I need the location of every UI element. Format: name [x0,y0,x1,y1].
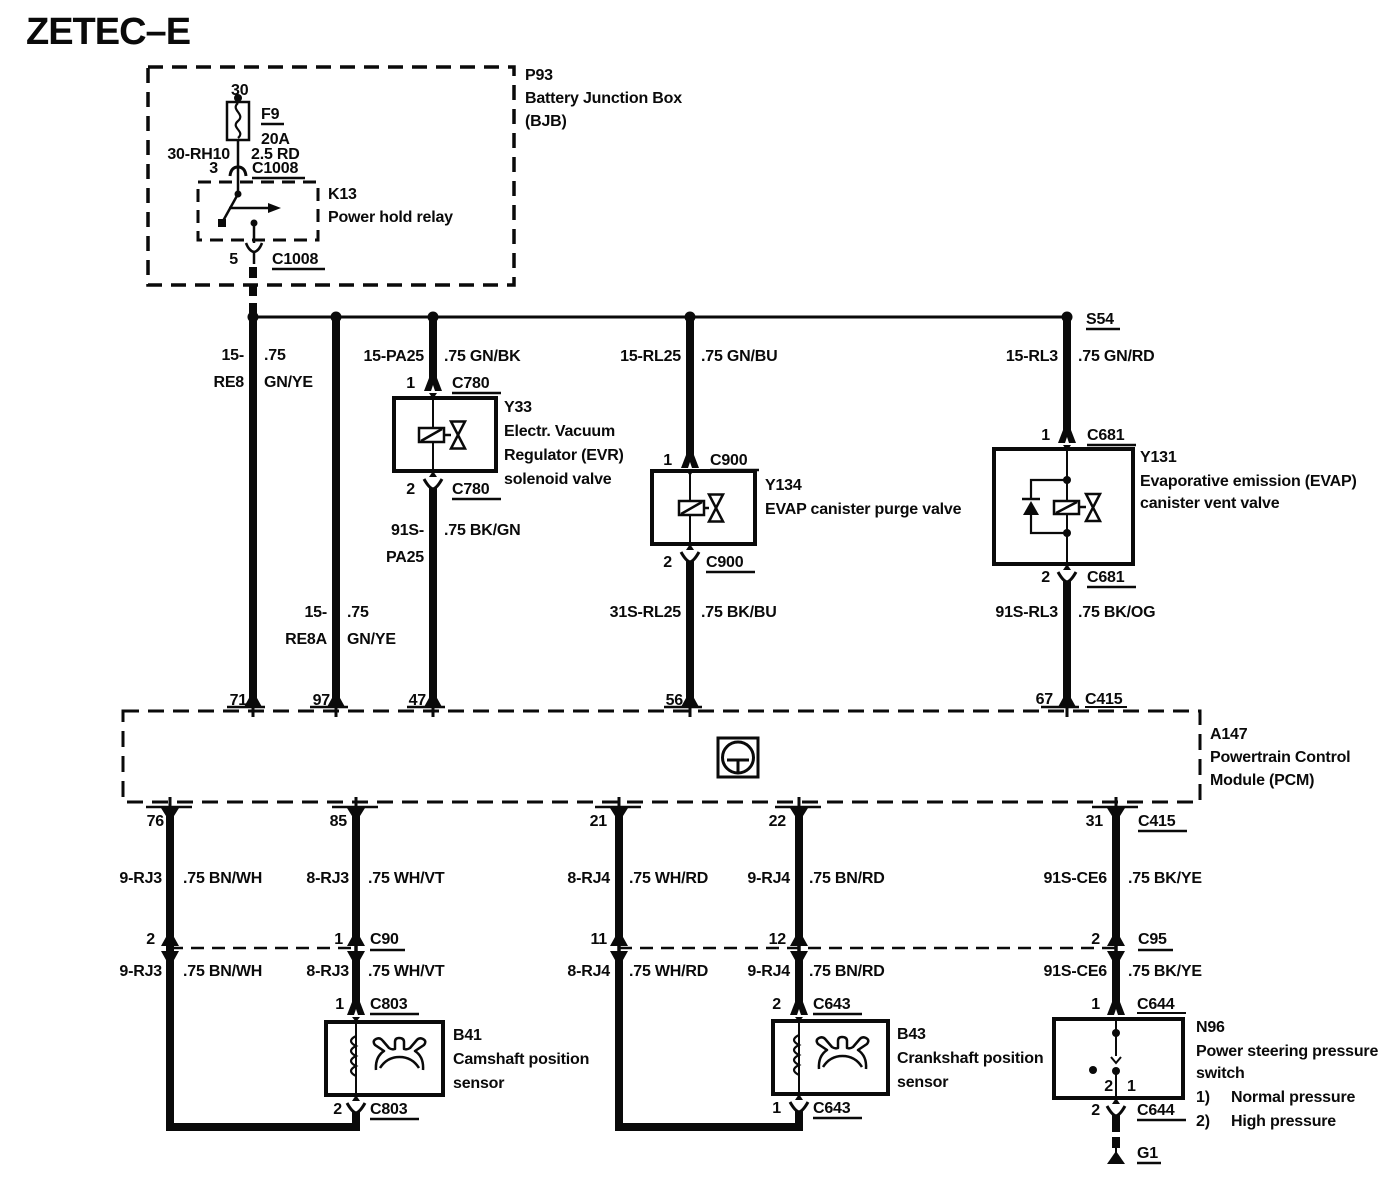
svg-text:C780: C780 [452,375,490,392]
svg-text:2: 2 [406,481,415,498]
node S54 [1086,311,1120,329]
svg-text:N96: N96 [1196,1019,1225,1036]
svg-text:RE8A: RE8A [285,631,328,648]
connector flare W7 at C90 [347,937,365,960]
svg-text:C643: C643 [813,1100,851,1117]
label Y134 EVAP canister purge valve [765,477,962,518]
svg-text:22: 22 [769,813,787,830]
wire fuse to relay [237,140,240,194]
svg-text:9-RJ4: 9-RJ4 [747,870,790,887]
wire 91S-PA25 (W3 lower) [429,488,437,702]
PCM pin 97 [310,692,348,717]
wire thick dashed below relay [249,267,257,314]
svg-text:C681: C681 [1087,569,1125,586]
svg-text:47: 47 [409,692,427,709]
svg-text:1: 1 [335,996,344,1013]
connector C780 pin 1 [406,375,501,399]
wire 31S-RL25 (W4 lower) [686,561,694,702]
svg-text:97: 97 [313,692,331,709]
bus wire horizontal [253,316,1067,319]
wire label 91S-PA25 .75 BK/GN [386,522,521,566]
svg-text:PA25: PA25 [386,549,424,566]
svg-text:1: 1 [406,375,415,392]
svg-text:C900: C900 [710,452,748,469]
relay switch [218,191,281,244]
svg-text:8-RJ3: 8-RJ3 [306,870,349,887]
vent valve Y131 box [994,449,1133,564]
svg-text:.75 WH/RD: .75 WH/RD [629,963,708,980]
svg-text:canister vent valve: canister vent valve [1140,495,1280,512]
svg-text:2: 2 [1041,569,1050,586]
svg-text:C780: C780 [452,481,490,498]
svg-text:.75 WH/VT: .75 WH/VT [368,963,445,980]
wire label 91S-RL3 .75 BK/OG [995,604,1155,621]
svg-text:2: 2 [1091,1102,1100,1119]
B43 coil [794,1035,799,1075]
wire label 15-RE8A .75 GN/YE [285,604,396,648]
svg-text:F9: F9 [261,106,280,123]
wire label 91S-CE6 .75 BK/YE (row 2) [1043,963,1202,980]
svg-text:15-: 15- [304,604,327,621]
svg-text:EVAP canister purge valve: EVAP canister purge valve [765,501,962,518]
svg-text:67: 67 [1036,691,1054,708]
wire 8-RJ4 (W8 upper) [615,810,623,944]
svg-text:1: 1 [1091,996,1100,1013]
wire 15-RL3 (W5 upper) [1063,317,1071,431]
wire 15-PA25 (W3 upper) [429,317,437,379]
svg-text:15-RL3: 15-RL3 [1006,348,1058,365]
svg-text:Y33: Y33 [504,399,532,416]
wire 9-RJ3 lower label (row 2) [119,963,262,980]
svg-text:.75 GN/RD: .75 GN/RD [1078,348,1154,365]
Y33 solenoid symbol [419,428,451,442]
connector flare W9 at C95 [790,937,808,960]
wire label 8-RJ3 .75 WH/VT (row 1) [306,870,444,887]
label A147 Powertrain Control Module (PCM) [1210,726,1350,789]
svg-text:C803: C803 [370,996,408,1013]
PCM pin 31 with C415 [1086,797,1187,831]
connector C900 pin 1 [663,452,759,476]
svg-text:91S-CE6: 91S-CE6 [1043,963,1107,980]
svg-text:8-RJ4: 8-RJ4 [567,870,610,887]
svg-text:.75 BK/YE: .75 BK/YE [1128,870,1202,887]
svg-text:Electr. Vacuum: Electr. Vacuum [504,423,615,440]
svg-text:Battery Junction Box: Battery Junction Box [525,90,682,107]
wire 91S-RL3 (W5 lower) [1063,581,1071,702]
wire label 15-RE8 .75 GN/YE [213,347,313,391]
svg-text:G1: G1 [1137,1145,1158,1162]
svg-text:S54: S54 [1086,311,1114,328]
PCM box A147 (dashed) [123,711,1200,802]
svg-text:.75 BN/RD: .75 BN/RD [809,963,885,980]
svg-text:1: 1 [334,931,343,948]
svg-text:15-: 15- [221,347,244,364]
svg-text:1: 1 [663,452,672,469]
Y134 internal wire [689,471,691,544]
Y134 valve bowtie symbol [709,495,723,522]
PCM pin 76 [146,797,192,830]
svg-text:Regulator (EVR): Regulator (EVR) [504,447,624,464]
svg-text:Crankshaft position: Crankshaft position [897,1050,1043,1067]
wire 8-RJ3 (W7 mid) [352,952,360,1003]
svg-text:solenoid valve: solenoid valve [504,471,612,488]
connector C644 pin 1 [1091,996,1186,1022]
connector C900 pin 2 [663,544,755,572]
svg-text:2: 2 [1091,931,1100,948]
svg-text:.75 WH/VT: .75 WH/VT [368,870,445,887]
svg-text:.75: .75 [347,604,369,621]
label N96 Power steering pressure switch [1196,1019,1378,1130]
svg-text:91S-: 91S- [391,522,424,539]
wire B43 pin1 to elbow [795,1111,803,1131]
connector C681 pin 2 [1041,564,1136,587]
svg-text:C681: C681 [1087,427,1125,444]
connector C803 pin 2 [333,1095,419,1119]
svg-text:2): 2) [1196,1113,1210,1130]
svg-text:91S-CE6: 91S-CE6 [1043,870,1107,887]
svg-text:(BJB): (BJB) [525,113,567,130]
svg-text:C803: C803 [370,1101,408,1118]
wire N96 pin2 to ground [1112,1115,1120,1132]
connector C780 pin 2 [406,471,501,499]
svg-text:2: 2 [772,996,781,1013]
B43 sprocket icon [817,1037,869,1069]
wire 9-RJ3 (W6) with elbow to B41 pin 2 [170,810,360,1127]
svg-text:B43: B43 [897,1026,926,1043]
label Y131 Evaporative emission (EVAP) canister vent valve [1140,449,1357,512]
svg-text:Power hold relay: Power hold relay [328,209,453,226]
svg-text:11: 11 [590,931,607,948]
label K13 Power hold relay [328,186,453,226]
svg-text:.75 BN/RD: .75 BN/RD [809,870,885,887]
wire 9-RJ4 (W9 mid) [795,952,803,1003]
node 30 [231,82,249,102]
svg-text:85: 85 [330,813,348,830]
connector C644 pin 2 [1091,1098,1186,1120]
wire label 8-RJ3 .75 WH/VT (row 2) [306,963,444,980]
PCM distributor icon [718,738,758,777]
svg-text:C900: C900 [706,554,744,571]
svg-text:.75 BK/GN: .75 BK/GN [444,522,520,539]
N96 switch internals [1089,1019,1136,1098]
label P93 Battery Junction Box (BJB) [525,67,682,130]
svg-text:C95: C95 [1138,931,1167,948]
Y33 valve bowtie symbol [451,422,465,449]
svg-text:76: 76 [147,813,165,830]
solenoid valve Y33 box [394,398,496,471]
svg-text:C415: C415 [1138,813,1176,830]
svg-text:2: 2 [663,554,672,571]
svg-text:C1008: C1008 [272,251,318,268]
PCM pin 47 [407,692,445,717]
svg-text:2: 2 [1104,1078,1113,1095]
svg-text:Normal pressure: Normal pressure [1231,1089,1355,1106]
wire label 30-RH10 2.5 RD [167,146,299,163]
svg-text:.75 GN/BK: .75 GN/BK [444,348,521,365]
svg-text:switch: switch [1196,1065,1245,1082]
svg-text:A147: A147 [1210,726,1248,743]
Y134 solenoid symbol [679,501,709,515]
wire B41 pin2 to elbow [352,1112,360,1131]
svg-text:GN/YE: GN/YE [264,374,313,391]
svg-text:9-RJ4: 9-RJ4 [747,963,790,980]
svg-text:1: 1 [772,1100,781,1117]
connector C643 pin 2 [772,996,862,1022]
wire 15-RE8 (W1) [249,317,257,702]
svg-text:.75 BN/WH: .75 BN/WH [183,963,262,980]
wire label 91S-CE6 .75 BK/YE (row 1) [1043,870,1202,887]
svg-text:Y134: Y134 [765,477,802,494]
power steering pressure switch N96 box [1054,1019,1183,1098]
B41 sprocket icon [374,1038,426,1070]
camshaft position sensor B41 box [326,1022,443,1095]
wire label 9-RJ4 .75 BN/RD (row 1) [747,870,884,887]
svg-text:Evaporative emission (EVAP): Evaporative emission (EVAP) [1140,473,1357,490]
svg-text:2: 2 [333,1101,342,1118]
B41 internal wire [355,1022,357,1095]
svg-text:C644: C644 [1137,1102,1175,1119]
PCM pin 67 with C415 [1036,691,1127,717]
wire label 15-PA25 .75 GN/BK [363,348,521,365]
connector C643 pin 1 [772,1094,862,1118]
svg-text:1: 1 [1041,427,1050,444]
label Y33 Electr. Vacuum Regulator (EVR) solenoid valve [504,399,624,488]
svg-text:56: 56 [666,692,684,709]
junction dots on bus [248,312,1073,323]
svg-text:31: 31 [1086,813,1104,830]
svg-text:sensor: sensor [453,1075,504,1092]
ground G1 [1107,1145,1161,1164]
PCM pin 21 [590,797,641,830]
svg-text:.75 BK/BU: .75 BK/BU [701,604,777,621]
svg-text:2: 2 [146,931,155,948]
wire 15-RL25 (W4 upper) [686,317,694,456]
svg-text:21: 21 [590,813,608,830]
svg-text:8-RJ4: 8-RJ4 [567,963,610,980]
svg-text:Y131: Y131 [1140,449,1177,466]
wire label 8-RJ4 .75 WH/RD (row 1) [567,870,708,887]
connector flare W8 at C95 [610,937,628,960]
svg-text:.75 BK/YE: .75 BK/YE [1128,963,1202,980]
svg-text:30-RH10: 30-RH10 [167,146,230,163]
svg-text:.75: .75 [264,347,286,364]
svg-text:8-RJ3: 8-RJ3 [306,963,349,980]
svg-text:sensor: sensor [897,1074,948,1091]
wire 9-RJ4 (W9 upper) [795,810,803,944]
svg-text:P93: P93 [525,67,553,84]
wire 15-RE8A (W2) [332,317,340,702]
battery junction box P93 (dashed) [148,67,514,285]
svg-text:12: 12 [769,931,787,948]
svg-text:B41: B41 [453,1027,482,1044]
label B43 Crankshaft position sensor [897,1026,1043,1091]
wire label 15-RL25 .75 GN/BU [620,348,777,365]
wire label 31S-RL25 .75 BK/BU [610,604,777,621]
PCM pin 22 [769,797,821,830]
svg-text:1): 1) [1196,1089,1210,1106]
svg-text:Module (PCM): Module (PCM) [1210,772,1314,789]
svg-text:C644: C644 [1137,996,1175,1013]
svg-text:15-RL25: 15-RL25 [620,348,681,365]
connector C1008 pin 5 [229,243,325,269]
wire 91S-CE6 (W10 upper) [1112,810,1120,944]
svg-text:5: 5 [229,251,238,268]
svg-text:15-PA25: 15-PA25 [363,348,424,365]
svg-text:C643: C643 [813,996,851,1013]
svg-text:.75 WH/RD: .75 WH/RD [629,870,708,887]
svg-text:9-RJ3: 9-RJ3 [119,963,162,980]
PCM pin 85 [330,797,378,830]
wire label 9-RJ4 .75 BN/RD (row 2) [747,963,884,980]
svg-text:Camshaft position: Camshaft position [453,1051,589,1068]
connector C681 pin 1 [1041,427,1136,451]
svg-text:1: 1 [1127,1078,1136,1095]
wire 91S-CE6 (W10 mid) [1112,952,1120,1003]
svg-text:71: 71 [230,692,248,709]
svg-text:K13: K13 [328,186,357,203]
label B41 Camshaft position sensor [453,1027,589,1092]
wire 8-RJ3 (W7 upper) [352,810,360,944]
purge valve Y134 box [652,471,755,544]
B43 internal wire [798,1021,800,1094]
svg-text:91S-RL3: 91S-RL3 [995,604,1058,621]
connector C803 pin 1 [335,996,419,1022]
wire 8-RJ4 (W8) with elbow to B43 pin 1 [619,952,803,1127]
Y33 internal wire [432,398,434,471]
inline connector C90 dashed line [146,931,405,950]
PCM pin 71 [227,692,265,717]
svg-text:High pressure: High pressure [1231,1113,1336,1130]
fuse F9 20A [227,102,290,148]
svg-text:.75 GN/BU: .75 GN/BU [701,348,777,365]
svg-text:3: 3 [209,160,218,177]
svg-text:C415: C415 [1085,691,1123,708]
svg-text:31S-RL25: 31S-RL25 [610,604,682,621]
inline connector C95 dashed line [590,931,1173,950]
crankshaft position sensor B43 box [773,1021,888,1094]
svg-text:Power steering pressure: Power steering pressure [1196,1043,1378,1060]
connector flare W6 at C90 [161,937,179,960]
svg-text:Powertrain Control: Powertrain Control [1210,749,1350,766]
svg-text:C90: C90 [370,931,399,948]
Y131 valve bowtie symbol [1086,494,1100,521]
relay K13 box (dashed) [198,182,318,240]
svg-text:C1008: C1008 [252,160,298,177]
svg-text:9-RJ3: 9-RJ3 [119,870,162,887]
wire label 15-RL3 .75 GN/RD [1006,348,1155,365]
wire label 9-RJ3 .75 BN/WH (row 1) [119,870,262,887]
svg-text:.75 BK/OG: .75 BK/OG [1078,604,1155,621]
PCM pin 56 [664,692,702,717]
Y131 diode branch [1022,480,1067,533]
Y131 internal wire [1066,449,1068,564]
Y131 junction dots [1063,476,1071,537]
svg-text:.75 BN/WH: .75 BN/WH [183,870,262,887]
connector flare W10 at C95 [1107,937,1125,960]
connector C1008 pin 3 [209,160,305,178]
wire label 8-RJ4 .75 WH/RD (row 2) [567,963,708,980]
Y131 solenoid symbol [1054,501,1086,514]
svg-text:RE8: RE8 [213,374,244,391]
B41 coil [351,1036,356,1076]
svg-text:GN/YE: GN/YE [347,631,396,648]
wire dashed to ground [1112,1137,1120,1148]
svg-text:ZETEC–E: ZETEC–E [26,11,190,53]
